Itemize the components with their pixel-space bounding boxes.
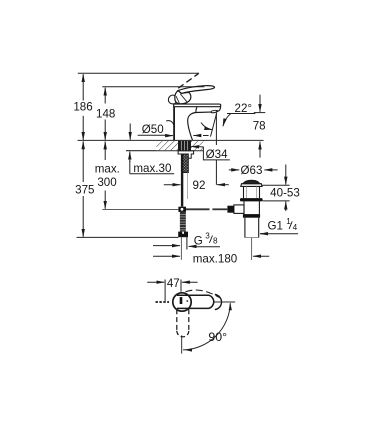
deck hatching left bbox=[156, 141, 178, 150]
top cover plate bbox=[174, 104, 221, 107]
dimension 40-53 bbox=[262, 165, 290, 212]
flange bbox=[241, 184, 262, 187]
svg-text:8: 8 bbox=[213, 237, 218, 246]
extension line top of faucet bbox=[78, 72, 199, 74]
dimension 47 bbox=[147, 280, 197, 302]
svg-text:92: 92 bbox=[193, 179, 206, 192]
G1 1/4 callout bbox=[260, 233, 298, 235]
svg-text:300: 300 bbox=[97, 176, 116, 189]
svg-text:90°: 90° bbox=[208, 330, 227, 344]
nut bbox=[243, 214, 260, 218]
dimension max.300 bbox=[104, 141, 106, 160]
countertop / mounting deck bbox=[78, 140, 264, 150]
knob facet lines bbox=[176, 94, 187, 104]
supply pipe bbox=[181, 154, 183, 207]
dimension max.30 deck thickness bbox=[130, 124, 175, 174]
deck bottom line bbox=[126, 150, 203, 152]
svg-text:max.: max. bbox=[95, 163, 120, 176]
small hook detail left of body bbox=[166, 121, 174, 130]
seal ring bbox=[240, 198, 263, 201]
pop-up rod horizontal bbox=[102, 208, 227, 210]
tail centerline bbox=[251, 238, 253, 260]
small dot bbox=[186, 300, 188, 302]
svg-text:186: 186 bbox=[73, 101, 92, 114]
lower body bbox=[244, 201, 259, 214]
label G3/8 bbox=[194, 232, 218, 248]
svg-text:40-53: 40-53 bbox=[270, 186, 300, 199]
svg-text:22°: 22° bbox=[235, 102, 253, 115]
leader from 22 label bbox=[223, 114, 231, 127]
below deck: locknut, threaded shank, supply bbox=[178, 151, 194, 260]
dimension Ø63 bbox=[229, 169, 278, 171]
90 degree annotation bbox=[183, 302, 235, 352]
svg-text:max.180: max.180 bbox=[193, 252, 237, 265]
pop-up waste side view bbox=[227, 181, 262, 261]
handle raised position dashed bbox=[178, 73, 199, 88]
plug dome bbox=[243, 181, 259, 184]
Ø34 callout bracket bbox=[191, 145, 230, 160]
svg-text:Ø34: Ø34 bbox=[206, 148, 228, 161]
locknut flange with step bbox=[178, 151, 194, 158]
temp indicator bar bbox=[180, 297, 183, 304]
extension line at hose end (bottom of 375) bbox=[77, 236, 179, 238]
knob left lobe bbox=[168, 95, 176, 104]
stream angle line bbox=[211, 113, 217, 137]
svg-text:G1: G1 bbox=[268, 219, 283, 232]
G3/8 nut bbox=[178, 232, 188, 238]
top view body circle bbox=[156, 290, 222, 354]
port knob bbox=[227, 206, 234, 213]
centerline below bbox=[181, 335, 183, 353]
side port bbox=[234, 205, 244, 214]
body left edge bbox=[173, 107, 175, 141]
svg-text:max.30: max.30 bbox=[133, 162, 171, 175]
lever knob bbox=[175, 91, 191, 104]
dashed swing arc above bbox=[186, 290, 220, 298]
vertical extension from spout outlet bbox=[215, 113, 217, 185]
dimension max.180 bbox=[153, 255, 269, 257]
svg-text:47: 47 bbox=[167, 277, 180, 290]
G3/8 callout bbox=[153, 246, 220, 247]
deck top line bbox=[78, 139, 264, 141]
faucet shank through deck bbox=[178, 141, 191, 151]
lever top view bbox=[177, 295, 214, 308]
lever tip protrusion dashes bbox=[156, 301, 170, 303]
spout tip edge bbox=[218, 107, 221, 112]
svg-text:375: 375 bbox=[75, 183, 94, 196]
faucet body side view bbox=[166, 73, 221, 140]
svg-text:4: 4 bbox=[293, 223, 298, 232]
svg-text:Ø50: Ø50 bbox=[142, 123, 164, 136]
body front concave curve bbox=[188, 107, 197, 140]
dimension 186 bbox=[82, 74, 84, 100]
dimension 375 bbox=[82, 141, 84, 182]
22 degree spout annotation bbox=[201, 113, 255, 185]
lever blade bbox=[178, 86, 215, 94]
tailpipe bbox=[245, 218, 259, 238]
dimension Ø50 bbox=[138, 134, 209, 136]
dimension 78 bbox=[254, 95, 265, 158]
dashed lever rotated down bbox=[176, 309, 178, 331]
dimension 148 bbox=[104, 88, 106, 104]
deck hatching right bbox=[191, 141, 203, 150]
aerator bbox=[210, 109, 219, 113]
outer spout cap right bbox=[215, 295, 222, 310]
spout underside bbox=[196, 111, 211, 113]
label G1 1/4 bbox=[268, 217, 298, 232]
22 underline bbox=[227, 113, 255, 115]
svg-text:G: G bbox=[194, 235, 203, 248]
upper body bbox=[244, 186, 260, 198]
svg-text:Ø63: Ø63 bbox=[241, 164, 263, 177]
svg-text:148: 148 bbox=[96, 108, 115, 121]
dimension 92 bbox=[164, 184, 229, 186]
hose threaded section bbox=[180, 212, 186, 232]
pop-up rod pivot junction bbox=[178, 207, 186, 212]
extension line top of handle closed bbox=[102, 86, 204, 88]
threaded shank bbox=[182, 154, 189, 173]
svg-text:78: 78 bbox=[253, 119, 266, 132]
hose tail lines bbox=[180, 237, 182, 260]
angle arc bbox=[201, 123, 212, 130]
svg-text:3: 3 bbox=[205, 232, 210, 241]
